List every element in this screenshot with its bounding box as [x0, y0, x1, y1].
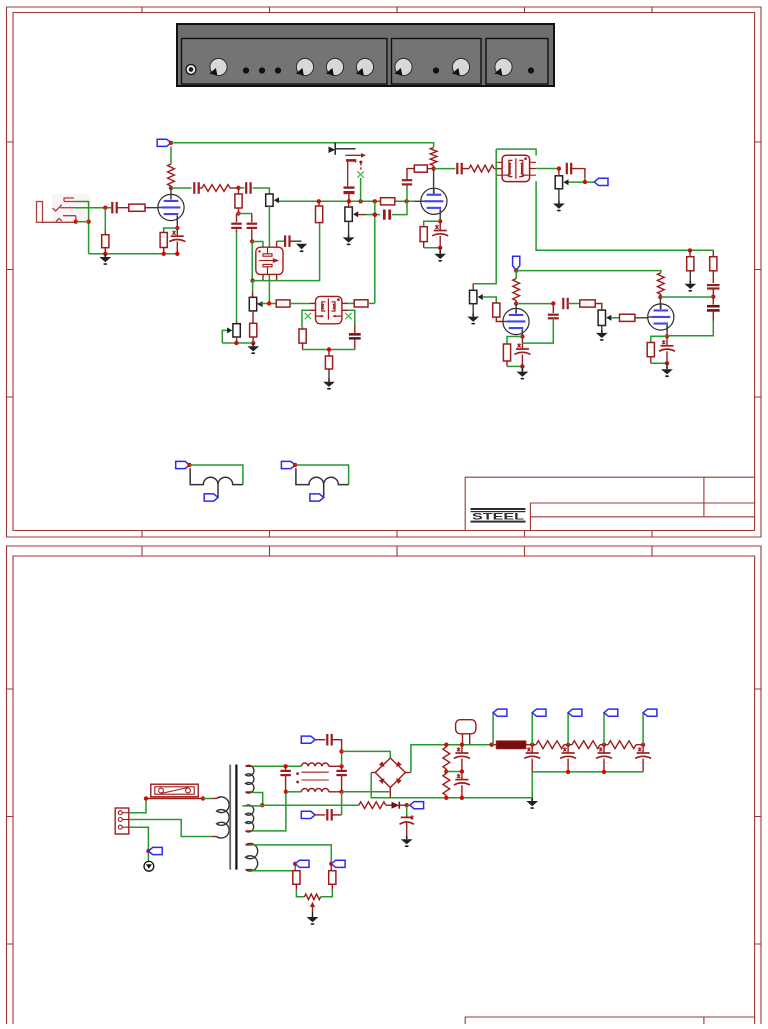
wire P4 top: [348, 201, 350, 207]
wire: [611, 317, 619, 319]
junction: [201, 796, 205, 800]
wire R25 top: [712, 250, 714, 257]
wire jack winding: [190, 468, 243, 497]
wire plate line V4: [660, 296, 713, 298]
junction: [460, 743, 464, 747]
junction: [583, 180, 587, 184]
junction: [236, 211, 240, 215]
resistor R2 grid stopper V1: [129, 204, 145, 211]
resistor R24: [687, 257, 694, 271]
wire cathode bottom: [651, 362, 667, 364]
resistor R31: [608, 741, 636, 749]
speaker jack J3: [176, 461, 243, 501]
wire T1 to splitter rail: [536, 181, 713, 250]
wire V2 cathode: [424, 221, 441, 226]
polarity dots: [296, 772, 299, 775]
net flag SPK1A: [176, 461, 190, 468]
resistor R35 grid stopper V2: [381, 198, 395, 205]
potentiometer P2 speed: [249, 297, 256, 311]
panel knob 2: [296, 58, 314, 75]
junction: [339, 790, 343, 794]
junction: [460, 769, 464, 773]
junction: [144, 796, 148, 800]
wire HT B end riser: [252, 792, 286, 831]
junction: [347, 199, 351, 203]
wire B+ tap 5: [642, 713, 644, 745]
wire: [515, 271, 517, 279]
wire to ground: [439, 248, 441, 253]
wire C20 top lead: [712, 297, 714, 305]
net flag B+1: [493, 709, 507, 716]
net flag AC2: [301, 811, 315, 818]
resistor R32 bias: [359, 802, 386, 809]
junction: [260, 803, 264, 807]
junction: [658, 295, 662, 299]
junction: [665, 334, 669, 338]
bridge rectifier B1: [375, 758, 405, 788]
wire S1 leads: [463, 734, 470, 745]
wire 0V rail: [371, 773, 532, 798]
wire to master pot: [568, 178, 595, 183]
ground GND15: [307, 917, 319, 925]
wire to R12: [328, 350, 330, 357]
capacitor C17 feedback: [552, 304, 554, 314]
junction: [514, 301, 518, 305]
ground GND6: [434, 251, 446, 262]
junction: [520, 364, 524, 368]
wire C5 leads: [236, 214, 238, 233]
resistor R19 grid V3: [493, 303, 500, 317]
net flag SPK2A: [281, 461, 295, 468]
wire plate out: [171, 187, 192, 189]
wire V1 plate lead: [170, 188, 172, 194]
junction: [293, 862, 297, 866]
wire to ground: [666, 363, 668, 367]
net flag HTR2: [295, 860, 309, 867]
sheet2 frame ticks: [7, 546, 762, 944]
wire wiper to R9: [262, 303, 276, 305]
wire C27 leads: [531, 745, 533, 772]
junction: [444, 743, 448, 747]
net flag EARTH: [148, 847, 162, 854]
junction: [74, 220, 78, 224]
wire P1 bottom through opto: [268, 206, 270, 303]
resistor R7: [316, 206, 323, 223]
inductor L2: [301, 789, 328, 792]
sheet2 title block: [465, 1017, 754, 1024]
capacitor C11: [402, 180, 412, 184]
junction: [250, 278, 254, 282]
capacitor C24: [327, 809, 331, 821]
wire opto bottom pins: [263, 274, 277, 280]
panel dot 2: [259, 67, 265, 73]
wire to C31: [406, 805, 408, 815]
junction: [438, 219, 442, 223]
wire grid lead V1: [145, 207, 162, 209]
resistor R20 cathode V3: [503, 344, 510, 361]
wire B+ tap 4: [603, 713, 605, 745]
wire V4 plate lead: [659, 297, 661, 309]
wire hum wiper: [312, 907, 314, 913]
transformer TR1 HT winding B: [246, 805, 254, 832]
wire R19 to grid: [496, 317, 502, 321]
junction: [327, 347, 331, 351]
capacitor C14: [567, 163, 571, 175]
wire R12 to ground: [328, 369, 330, 379]
wire to R10: [348, 302, 354, 304]
wire to T2: [290, 303, 310, 305]
wire heater A: [252, 845, 331, 864]
junction: [251, 341, 255, 345]
wire T2 right loop: [348, 310, 355, 324]
wire R10 to riser: [368, 302, 375, 304]
junction: [293, 463, 297, 467]
wire V3 cathode lead: [521, 329, 523, 336]
supply flag +V1: [157, 139, 171, 146]
transformer TR1 primary winding: [212, 798, 217, 836]
wire input line: [75, 207, 111, 209]
capacitor C30 filter: [635, 747, 651, 758]
wire R24 to ground: [689, 271, 691, 283]
opto coupler U1: [256, 247, 283, 274]
potentiometer P1 tone: [266, 194, 273, 206]
wire: [483, 297, 497, 303]
wire V2 grid lead: [414, 200, 424, 202]
wire C12 leads: [439, 221, 441, 248]
junction: [358, 199, 362, 203]
svg-text:STEEL: STEEL: [472, 511, 524, 522]
ground GND7: [553, 200, 565, 211]
wire mains neutral: [129, 820, 212, 837]
junction: [602, 743, 606, 747]
wire line2 to bridge: [342, 791, 391, 793]
wire P4 to ground: [348, 221, 350, 234]
wire cathode bottom: [424, 247, 441, 249]
sheet2 inner frame: [13, 556, 755, 1024]
junction: [169, 186, 173, 190]
transformer TR1 core: [229, 765, 231, 870]
wire P3 wiper: [222, 330, 227, 343]
wire jack winding: [296, 468, 349, 497]
junction: [566, 770, 570, 774]
wire C18 leads: [666, 336, 668, 363]
wire C5 down: [236, 231, 238, 317]
wire B+ bus: [171, 143, 434, 148]
wire bias line: [262, 804, 359, 806]
capacitor C10: [384, 210, 389, 220]
junction: [520, 334, 524, 338]
junction: [234, 341, 238, 345]
wire to R21: [568, 303, 580, 305]
net cross X3: [357, 171, 363, 177]
wire to R11: [302, 327, 304, 329]
ground GND5: [343, 234, 355, 245]
wire tap: [242, 805, 262, 807]
wire opto pin: [276, 241, 278, 247]
wire C21 leads: [285, 766, 287, 792]
wire heater B: [252, 864, 295, 871]
ground GND4: [323, 379, 335, 390]
resistor R30: [572, 741, 600, 749]
capacitor C31 bias: [400, 815, 414, 824]
wire trem rail: [222, 342, 253, 344]
wire V4 cathode lead: [666, 325, 668, 336]
wire to C8: [354, 325, 356, 334]
ground GND13: [526, 798, 538, 809]
resistor R5: [202, 185, 230, 192]
wire T1 top loop: [496, 149, 536, 155]
wire hum pot links: [296, 889, 332, 897]
junction: [405, 803, 409, 807]
capacitor C26 reservoir B: [454, 774, 470, 785]
wire C26 leads: [461, 772, 463, 798]
junction: [444, 769, 448, 773]
panel knob 5: [394, 58, 412, 75]
junction: [602, 770, 606, 774]
wire T2 lower left pin: [309, 309, 315, 311]
ground GND1: [99, 254, 111, 265]
panel knob 3: [326, 58, 344, 75]
diode D1 bias: [392, 802, 400, 809]
triode V2: [421, 188, 447, 215]
panel section 1: [182, 39, 388, 85]
resistor R33 hum: [329, 871, 336, 885]
wire mains live: [129, 799, 146, 813]
wire T2 left loop: [302, 310, 309, 327]
capacitor C29 filter: [596, 747, 612, 758]
wire to R3: [104, 208, 106, 231]
potentiometer P5 master: [555, 176, 562, 189]
inductor L1: [301, 763, 328, 766]
net flag B+2: [532, 709, 546, 716]
wire to P3: [236, 317, 238, 321]
capacitor C7: [285, 235, 289, 247]
input jack J1: [52, 194, 90, 223]
capacitor C18 cathode bypass V4: [659, 340, 675, 351]
wire P2 wiper: [257, 303, 262, 305]
net flag B+4: [604, 709, 618, 716]
capacitor C2 cathode bypass V1: [169, 230, 185, 241]
junction: [267, 301, 271, 305]
panel knob 1: [209, 58, 227, 75]
potentiometer P3 depth: [233, 324, 240, 337]
panel dot 1: [243, 67, 249, 73]
capacitor C25 reservoir A: [454, 747, 470, 758]
resistor R26 bleeder A: [445, 745, 447, 747]
resistor R27 bleeder B: [443, 774, 450, 796]
panel section 2: [392, 39, 482, 85]
net flag AC1: [301, 736, 315, 743]
resistor R8: [250, 323, 257, 337]
ground GND9: [517, 368, 529, 379]
capacitor C23: [327, 734, 331, 746]
capacitor C3 coupling: [194, 182, 198, 194]
junction: [373, 199, 377, 203]
wire X3 to bus: [360, 178, 362, 201]
wire HT line 2: [286, 791, 302, 793]
junction: [175, 252, 179, 256]
capacitor C1 input: [112, 202, 116, 214]
wire opto row to R7: [253, 223, 320, 281]
junction: [187, 463, 191, 467]
net flag B+3: [568, 709, 582, 716]
junction: [460, 796, 464, 800]
wire feedback to cathode: [667, 322, 713, 336]
footswitch jack J2: [329, 143, 366, 187]
capacitor C19: [707, 285, 720, 288]
wire to opto: [252, 242, 263, 248]
junction: [566, 743, 570, 747]
panel knob 6: [452, 58, 470, 75]
junction: [329, 862, 333, 866]
junction: [688, 248, 692, 252]
wire B+ tap 3: [567, 713, 569, 745]
resistor R14 plate load V2: [430, 148, 437, 166]
wire bus to ground: [531, 772, 533, 798]
resistor R25: [710, 257, 717, 271]
wire HT line 1: [252, 765, 301, 767]
junction: [431, 166, 435, 170]
transformer TR1 HT winding A: [246, 765, 254, 793]
net flag B+5: [643, 709, 657, 716]
junction: [317, 199, 321, 203]
sheet1 outer frame: [7, 7, 762, 537]
resistor R12: [325, 356, 332, 369]
junction: [175, 226, 179, 230]
wire grid bus V2: [279, 200, 414, 202]
wire to ground: [521, 366, 523, 369]
junction: [438, 246, 442, 250]
wire V2 cathode lead: [439, 209, 441, 221]
wire down: [251, 242, 253, 281]
wire bleeder mid: [446, 771, 462, 773]
STEEL logo: [471, 508, 526, 523]
wire bridge bottom lead: [389, 788, 391, 798]
ground GND8: [467, 313, 479, 324]
fuse F1: [146, 784, 203, 798]
resistor R13 feedback: [414, 165, 427, 172]
wire R25 to C19: [712, 271, 714, 283]
wire jack contact: [76, 221, 89, 223]
resistor R34 hum: [293, 871, 300, 885]
net flag SPK1B: [204, 494, 218, 501]
junction: [373, 213, 377, 217]
wire mains earth: [129, 827, 149, 861]
wire P7 to ground: [601, 326, 603, 330]
wire to tone pot: [253, 188, 270, 194]
resistor R15 cathode V2: [420, 227, 427, 242]
wire cathode bottom: [507, 365, 522, 367]
wire to P2: [252, 281, 254, 292]
capacitor C28 filter: [560, 747, 576, 758]
capacitor C6: [247, 224, 258, 228]
wire R22 to V4 grid: [635, 317, 652, 319]
junction: [641, 743, 645, 747]
capacitor C17: [548, 315, 559, 319]
wire V3 plate out: [516, 303, 553, 305]
transformer TR1 heater winding: [246, 843, 258, 871]
net flag SPK2B: [310, 494, 324, 501]
wire hum pot leads: [296, 884, 332, 889]
wire to C7: [277, 240, 284, 242]
wire P2 to R8: [252, 311, 254, 323]
capacitor C8 electrolytic: [349, 333, 361, 340]
standby switch S1: [456, 720, 476, 734]
wire jack top: [295, 465, 348, 485]
wire to bridge top: [342, 751, 391, 758]
junction: [250, 239, 254, 243]
junction: [530, 743, 534, 747]
net flag BIAS: [410, 802, 424, 809]
resistor R6: [235, 194, 242, 208]
wire B+ tap 2: [531, 713, 533, 745]
capacitor C4: [246, 182, 250, 194]
junction: [444, 796, 448, 800]
net flag OUT: [594, 178, 608, 185]
speaker jack J4: [281, 461, 348, 501]
capacitor C9: [344, 188, 355, 193]
junction: [404, 199, 408, 203]
capacitor C5: [231, 224, 242, 228]
wire cathode cap leads: [176, 228, 178, 254]
wire bridge right lead: [405, 772, 411, 774]
wire fuse to primary: [203, 798, 212, 800]
wire P5 top: [558, 169, 560, 176]
wire C28 leads: [567, 745, 569, 772]
capacitor C27 filter: [524, 747, 540, 758]
wire T2 lower right pin: [342, 309, 348, 311]
junction: [103, 206, 107, 210]
junction: [86, 220, 90, 224]
wire AC1 riser: [341, 751, 343, 766]
net cross X1: [305, 313, 311, 319]
junction: [551, 301, 555, 305]
amplifier front panel: [177, 24, 554, 86]
wire R24 top: [689, 250, 691, 256]
resistor R4 cathode V1: [160, 233, 167, 248]
ground GND11: [661, 366, 673, 377]
panel knob 4: [356, 58, 374, 75]
wire T1 output: [536, 168, 559, 170]
capacitor C12 cathode bypass V2: [432, 225, 448, 236]
net flag HTR1: [331, 860, 345, 867]
wire B+ tap 1: [492, 713, 494, 745]
wire C29 leads: [603, 745, 605, 772]
wire to ground: [289, 240, 301, 242]
wire B+ raw: [411, 745, 492, 773]
panel input jack: [185, 64, 196, 75]
wire trem riser: [374, 201, 376, 303]
junction: [236, 186, 240, 190]
wire osc bottom: [302, 349, 355, 351]
triode V4: [648, 304, 674, 331]
sheet1 inner frame: [13, 13, 755, 531]
wire jack top: [190, 465, 243, 485]
ground GND2: [296, 244, 307, 252]
L1/L2 core lines: [301, 772, 328, 780]
junction: [162, 252, 166, 256]
resistor R21: [580, 300, 595, 307]
wire trem line: [366, 214, 380, 216]
mains connector X1: [115, 808, 129, 834]
junction: [339, 764, 343, 768]
resistor R18 plate load V4: [657, 273, 664, 294]
resistor R28 sag (filled): [496, 741, 526, 749]
junction: [283, 764, 287, 768]
junction: [339, 749, 343, 753]
wire B+2 rail: [516, 271, 661, 273]
wire ground rail V1: [89, 253, 178, 255]
